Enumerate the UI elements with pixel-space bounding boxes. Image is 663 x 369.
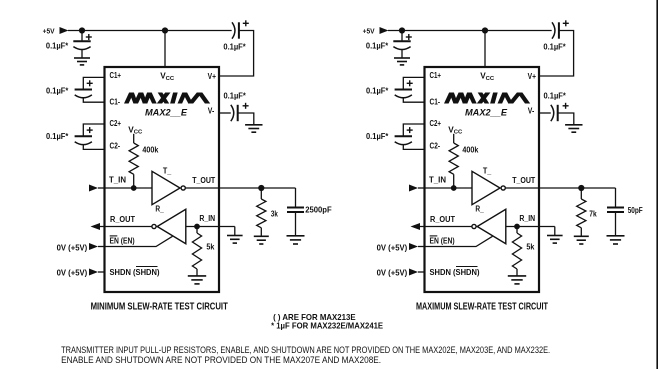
- junction Vcc node (right): [482, 27, 488, 33]
- capacitor 0.1uF C1 (left): [75, 89, 92, 91]
- polarity + V- cap (left): [243, 105, 249, 107]
- svg-text:T_IN: T_IN: [429, 175, 446, 184]
- svg-text:C2-: C2-: [110, 140, 121, 150]
- polarity + C1 cap (right): [407, 82, 413, 84]
- input arrow T_IN (left): [89, 185, 98, 192]
- wire Vcc to 400k (right): [453, 134, 455, 143]
- wire C2+ stub (left): [83, 124, 104, 136]
- wire bypass cap to ground (left): [81, 50, 83, 58]
- wire C2- stub (right): [403, 145, 424, 150]
- IC body MAX2__E (right): [425, 67, 540, 292]
- svg-text:0.1µF*: 0.1µF*: [366, 42, 389, 51]
- junction +5V bypass node (right): [399, 27, 405, 33]
- junction R_IN node (right): [514, 224, 520, 230]
- svg-text:50pF: 50pF: [628, 206, 643, 215]
- svg-text:R_IN: R_IN: [519, 214, 535, 223]
- svg-text:ENABLE AND SHUTDOWN ARE NOT PR: ENABLE AND SHUTDOWN ARE NOT PROVIDED ON …: [61, 355, 381, 366]
- svg-text:0V (+5V): 0V (+5V): [377, 243, 408, 253]
- wire V+ cap to V+ pin (left): [219, 31, 254, 77]
- input arrow SHDN (left): [89, 269, 98, 276]
- wire load cap lead (right): [615, 188, 617, 208]
- svg-text:MAXIMUM SLEW-RATE TEST CIRCUIT: MAXIMUM SLEW-RATE TEST CIRCUIT: [416, 301, 549, 312]
- junction R_IN node (left): [194, 224, 200, 230]
- resistor 5k (left): [192, 233, 201, 269]
- ground load cap (right): [607, 235, 625, 237]
- svg-text:0V (+5V): 0V (+5V): [57, 267, 88, 277]
- svg-text:0.1µF*: 0.1µF*: [224, 92, 247, 101]
- wire +5V to bypass cap (right): [401, 31, 403, 42]
- resistor load (left): [257, 199, 266, 228]
- wire R_OUT (right): [420, 226, 472, 228]
- input arrow SHDN (right): [409, 269, 418, 276]
- svg-text:0.1µF*: 0.1µF*: [543, 43, 566, 52]
- wire load node to resistor (right): [580, 188, 582, 199]
- capacitor load (right): [607, 207, 624, 209]
- polarity + V+ cap (left): [243, 22, 249, 24]
- polarity + V+ cap (right): [563, 22, 569, 24]
- wire load resistor to ground (left): [260, 228, 262, 237]
- junction T_OUT load node (right): [578, 185, 584, 191]
- polarity + C1 cap (left): [87, 82, 93, 84]
- junction T_IN node (right): [451, 185, 457, 191]
- page border right: [656, 0, 658, 369]
- svg-text:MAX2__E: MAX2__E: [145, 107, 188, 118]
- wire R_IN to ground (left): [234, 227, 236, 236]
- svg-text:C1-: C1-: [430, 96, 441, 106]
- svg-text:+5V: +5V: [43, 27, 56, 36]
- inverter bubble T_ (right): [501, 186, 505, 190]
- capacitor 0.1uF V+ pump (right): [552, 22, 555, 38]
- polarity + bypass cap (left): [86, 36, 92, 38]
- wire R_IN (right): [506, 226, 555, 228]
- inverter bubble T_ (left): [181, 186, 185, 190]
- svg-text:MAX2__E: MAX2__E: [465, 107, 508, 118]
- svg-text:0.1µF*: 0.1µF*: [46, 86, 69, 95]
- wire C1+ stub (right): [403, 77, 424, 89]
- input arrow +5V (left): [60, 27, 69, 34]
- op-amp receiver R_ (left): [157, 209, 186, 243]
- capacitor 0.1uF C1 (right): [395, 89, 412, 91]
- inverter bubble R_ (left): [152, 224, 156, 228]
- svg-text:V-: V-: [208, 105, 215, 115]
- capacitor load (left): [287, 207, 304, 209]
- wire Vcc to 400k (left): [133, 134, 135, 143]
- svg-text:EN (EN): EN (EN): [430, 236, 455, 245]
- svg-text:V+: V+: [528, 71, 536, 81]
- wire C1- stub (left): [83, 98, 104, 102]
- junction T_IN node (left): [131, 185, 137, 191]
- svg-text:R_: R_: [475, 204, 484, 213]
- polarity + C2 cap (right): [407, 129, 413, 131]
- wire EN (left): [105, 236, 173, 246]
- wire C1+ stub (left): [83, 77, 104, 89]
- capacitor 0.1uF V- (right): [551, 105, 554, 121]
- wire V+ cap to V+ pin (right): [539, 31, 574, 77]
- wire V- pin to cap (left): [219, 112, 231, 114]
- resistor load (right): [577, 199, 586, 228]
- wire load cap to ground (right): [615, 212, 617, 236]
- wire R_IN (left): [186, 226, 235, 228]
- wire R_IN to ground (right): [554, 227, 556, 236]
- wire Vcc drop to pin (left): [164, 31, 166, 68]
- ground bypass cap (left): [74, 57, 90, 59]
- wire R_IN to 5k (left): [196, 227, 198, 234]
- svg-text:C2-: C2-: [430, 140, 441, 150]
- wire Vcc drop to pin (right): [484, 31, 486, 68]
- ground V- cap (right): [565, 124, 582, 126]
- svg-text:T_OUT: T_OUT: [512, 176, 535, 185]
- svg-text:SHDN (SHDN): SHDN (SHDN): [430, 268, 480, 277]
- input arrow EN (left): [89, 243, 98, 250]
- wire +5V to bypass cap (left): [81, 31, 83, 42]
- svg-text:EN (EN): EN (EN): [110, 236, 135, 245]
- svg-text:C1+: C1+: [430, 70, 442, 80]
- polarity + C2 cap (left): [87, 129, 93, 131]
- wire C2+ stub (right): [403, 124, 424, 136]
- svg-text:T_OUT: T_OUT: [192, 176, 215, 185]
- capacitor 0.1uF V- (left): [231, 105, 234, 121]
- ground V- cap (left): [245, 124, 262, 126]
- svg-text:0.1µF*: 0.1µF*: [366, 86, 389, 95]
- polarity + bypass cap (right): [406, 36, 412, 38]
- op-amp receiver R_ (right): [477, 209, 506, 243]
- svg-text:7k: 7k: [589, 210, 597, 219]
- ground load resistor (left): [254, 235, 269, 237]
- capacitor 0.1uF bypass (right): [393, 40, 410, 42]
- wire +5V rail (left): [68, 30, 232, 32]
- wire EN (right): [425, 236, 493, 246]
- IC body MAX2__E (left): [105, 67, 220, 292]
- svg-text:MINIMUM SLEW-RATE TEST CIRCUIT: MINIMUM SLEW-RATE TEST CIRCUIT: [91, 301, 229, 312]
- svg-text:R_OUT: R_OUT: [110, 215, 135, 224]
- svg-text:0.1µF*: 0.1µF*: [544, 92, 567, 101]
- wire C2- stub (left): [83, 145, 104, 150]
- svg-text:5k: 5k: [526, 242, 535, 251]
- input arrow T_IN (right): [409, 185, 418, 192]
- svg-text:400k: 400k: [462, 145, 479, 154]
- svg-text:* 1µF FOR MAX232E/MAX241E: * 1µF FOR MAX232E/MAX241E: [271, 320, 383, 330]
- wire bypass cap to ground (right): [401, 50, 403, 58]
- resistor 400k (left): [129, 143, 138, 174]
- svg-text:0.1µF*: 0.1µF*: [223, 43, 246, 52]
- svg-text:C1+: C1+: [110, 70, 122, 80]
- wire +5V rail (right): [388, 30, 552, 32]
- wire load resistor to ground (right): [580, 228, 582, 237]
- wire T_OUT (right): [505, 187, 615, 189]
- wire 400k to T_IN (left): [133, 174, 135, 188]
- ground load resistor (right): [574, 235, 589, 237]
- wire 400k to T_IN (right): [453, 174, 455, 188]
- wire 5k to ground (right): [516, 269, 518, 276]
- capacitor 0.1uF V+ pump (left): [232, 22, 235, 38]
- wire R_OUT (left): [100, 226, 152, 228]
- svg-text:R_: R_: [155, 204, 164, 213]
- op-amp transmitter T_ (left): [152, 171, 180, 204]
- svg-text:0.1µF*: 0.1µF*: [366, 132, 389, 141]
- svg-text:T_: T_: [483, 167, 492, 176]
- MAXIM logo (right): [444, 93, 454, 104]
- resistor 400k (right): [449, 143, 458, 174]
- ground R_IN (left): [227, 235, 243, 237]
- ground bypass cap (right): [394, 57, 410, 59]
- svg-text:C1-: C1-: [110, 96, 121, 106]
- wire T_OUT (left): [185, 187, 295, 189]
- op-amp transmitter T_ (right): [472, 171, 500, 204]
- capacitor 0.1uF bypass (left): [73, 40, 90, 42]
- wire T_IN (left): [105, 187, 153, 189]
- MAXIM logo (left): [124, 93, 134, 104]
- wire load node to resistor (left): [260, 188, 262, 199]
- inverter bubble R_ (right): [472, 224, 476, 228]
- wire V- pin to cap (right): [539, 112, 551, 114]
- wire V- cap to ground (left): [238, 113, 254, 125]
- svg-text:0V (+5V): 0V (+5V): [377, 267, 408, 277]
- svg-text:C2+: C2+: [430, 118, 442, 128]
- svg-text:V+: V+: [208, 71, 216, 81]
- junction T_OUT load node (left): [258, 185, 264, 191]
- svg-text:2500pF: 2500pF: [305, 206, 332, 215]
- wire C1- stub (right): [403, 98, 424, 102]
- svg-text:V-: V-: [528, 105, 535, 115]
- capacitor 0.1uF C2 (right): [395, 135, 412, 137]
- svg-text:R_OUT: R_OUT: [430, 215, 455, 224]
- svg-text:T_IN: T_IN: [109, 175, 126, 184]
- input arrow +5V (right): [380, 27, 389, 34]
- svg-text:0V (+5V): 0V (+5V): [57, 243, 88, 253]
- output arrow R_OUT (right): [411, 223, 421, 230]
- svg-text:0.1µF*: 0.1µF*: [46, 132, 69, 141]
- svg-text:R_IN: R_IN: [199, 214, 215, 223]
- wire V- cap to ground (right): [558, 113, 574, 125]
- wire R_IN to 5k (right): [516, 227, 518, 234]
- svg-text:C2+: C2+: [110, 118, 122, 128]
- junction Vcc node (left): [162, 27, 168, 33]
- polarity + V- cap (right): [563, 105, 569, 107]
- svg-text:400k: 400k: [142, 145, 159, 154]
- svg-text:T_: T_: [163, 167, 172, 176]
- svg-text:+5V: +5V: [363, 27, 376, 36]
- resistor 5k (right): [512, 233, 521, 269]
- wire 5k to ground (left): [196, 269, 198, 276]
- wire load cap lead (left): [295, 188, 297, 208]
- svg-text:3k: 3k: [271, 210, 279, 219]
- ground load cap (left): [287, 235, 305, 237]
- ground 5k (right): [508, 275, 526, 277]
- svg-text:0.1µF*: 0.1µF*: [46, 42, 69, 51]
- wire T_IN (right): [425, 187, 473, 189]
- wire load cap to ground (left): [295, 212, 297, 236]
- output arrow R_OUT (left): [91, 223, 101, 230]
- ground R_IN (right): [547, 235, 563, 237]
- capacitor 0.1uF C2 (left): [75, 135, 92, 137]
- junction +5V bypass node (left): [79, 27, 85, 33]
- svg-text:5k: 5k: [206, 242, 215, 251]
- svg-text:SHDN (SHDN): SHDN (SHDN): [110, 268, 160, 277]
- ground 5k (left): [188, 275, 206, 277]
- input arrow EN (right): [409, 243, 418, 250]
